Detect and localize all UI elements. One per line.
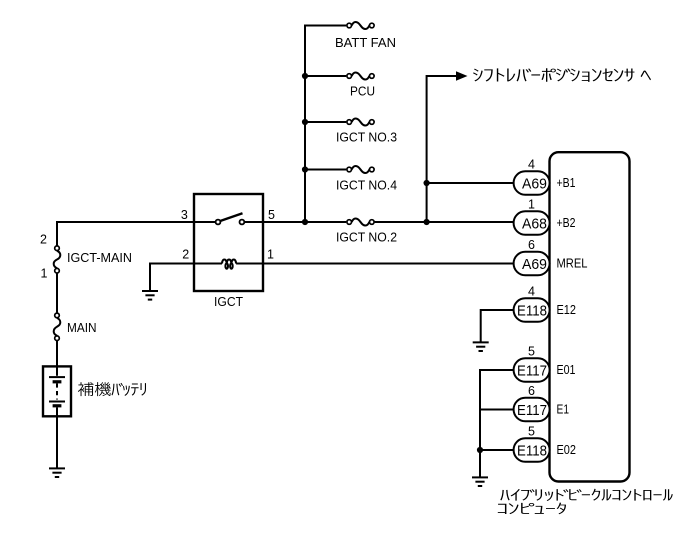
svg-text:E12: E12: [557, 303, 577, 317]
svg-text:+B2: +B2: [557, 216, 576, 230]
svg-text:IGCT NO.3: IGCT NO.3: [336, 131, 397, 145]
svg-text:IGCT-MAIN: IGCT-MAIN: [67, 251, 132, 265]
svg-text:E118: E118: [517, 442, 547, 459]
svg-text:2: 2: [40, 233, 47, 247]
svg-text:5: 5: [528, 344, 535, 358]
svg-text:E117: E117: [517, 402, 547, 419]
svg-text:3: 3: [181, 208, 188, 222]
svg-text:A68: A68: [522, 215, 547, 232]
svg-text:MREL: MREL: [557, 257, 588, 271]
svg-text:A69: A69: [522, 256, 547, 273]
svg-text:5: 5: [268, 208, 275, 222]
svg-text:+B1: +B1: [557, 176, 576, 190]
svg-text:4: 4: [528, 157, 535, 171]
svg-text:E1: E1: [557, 403, 570, 417]
svg-text:2: 2: [182, 248, 189, 262]
svg-text:IGCT NO.2: IGCT NO.2: [336, 231, 397, 245]
svg-text:1: 1: [528, 197, 535, 211]
svg-text:E118: E118: [517, 302, 547, 319]
svg-text:MAIN: MAIN: [67, 321, 97, 335]
svg-text:6: 6: [528, 384, 535, 398]
svg-text:4: 4: [528, 284, 535, 298]
svg-text:IGCT: IGCT: [214, 295, 243, 309]
svg-text:E117: E117: [517, 362, 547, 379]
svg-text:1: 1: [41, 267, 48, 281]
svg-text:PCU: PCU: [350, 85, 375, 99]
svg-text:BATT FAN: BATT FAN: [335, 36, 396, 50]
svg-text:5: 5: [528, 424, 535, 438]
svg-text:A69: A69: [522, 175, 547, 192]
svg-text:6: 6: [528, 238, 535, 252]
svg-text:E02: E02: [557, 443, 577, 457]
svg-text:1: 1: [267, 248, 274, 262]
svg-text:E01: E01: [557, 363, 576, 377]
svg-text:IGCT NO.4: IGCT NO.4: [336, 179, 397, 193]
